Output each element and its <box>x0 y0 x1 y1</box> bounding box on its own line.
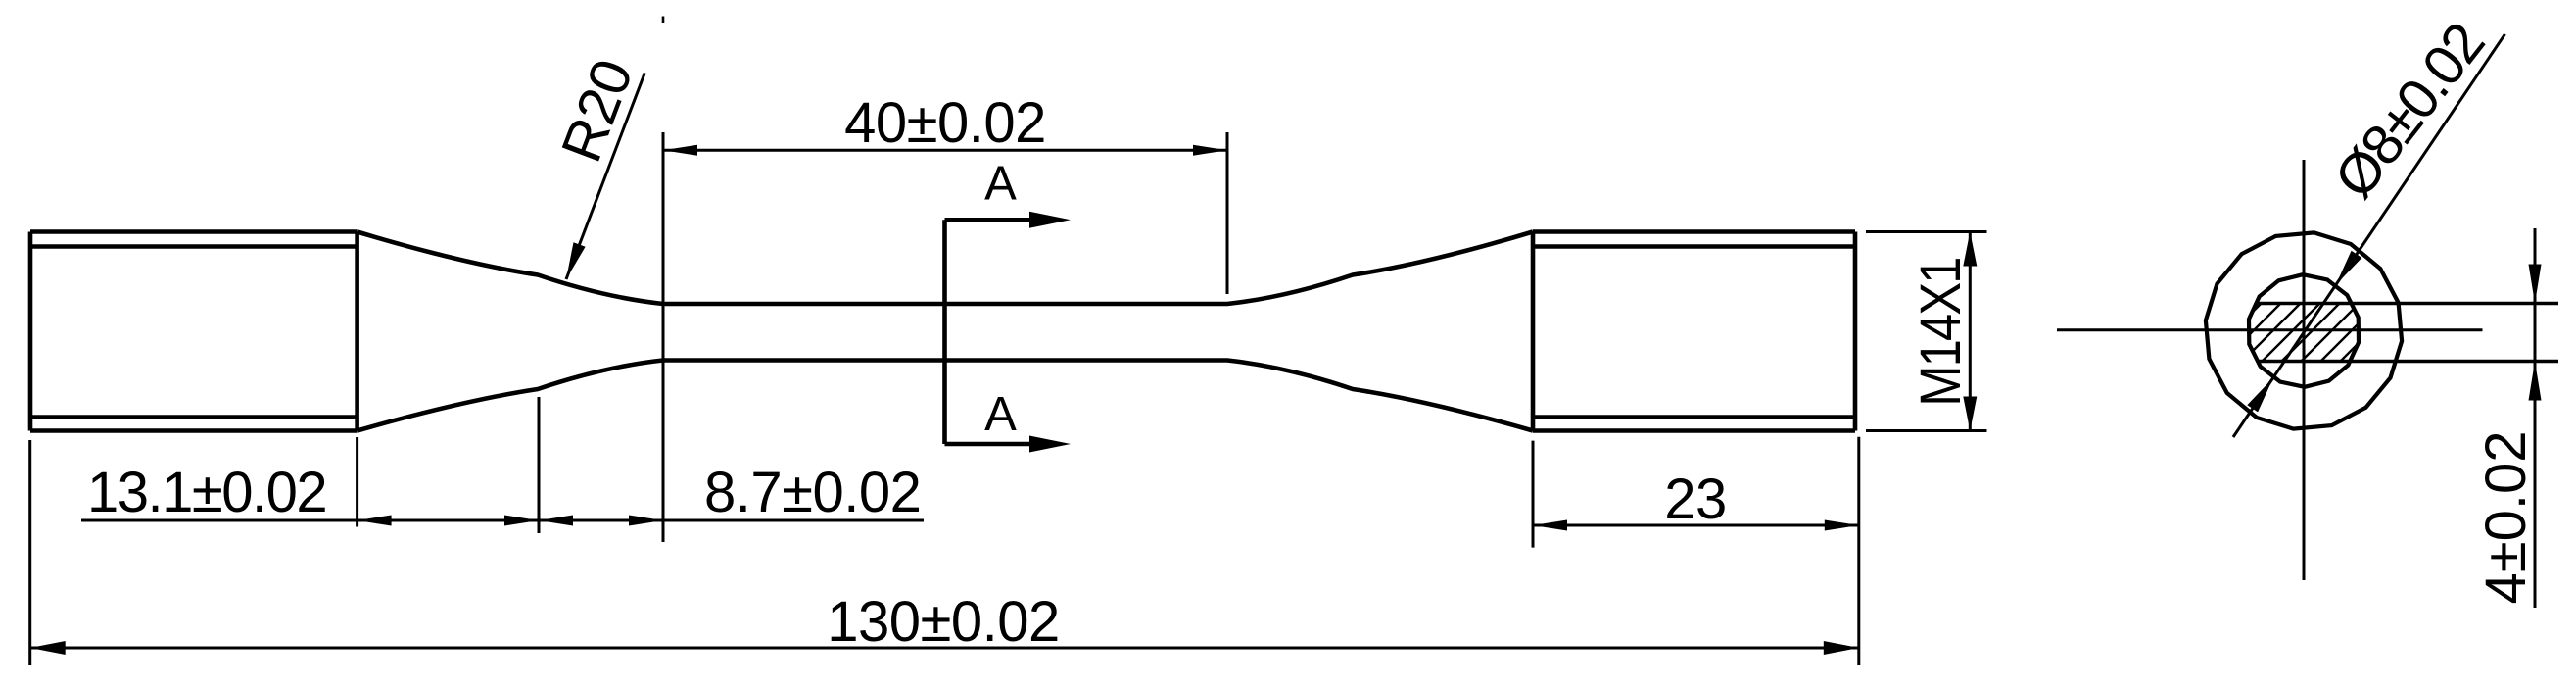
dimension line 40 <box>663 149 1227 152</box>
arrowhead 4 down <box>2529 265 2542 304</box>
section outer circle (polygon) <box>2206 232 2402 428</box>
left grip thread lines <box>30 247 358 418</box>
leader line Ø8 <box>2233 34 2505 437</box>
extension line 130 left <box>28 440 31 665</box>
section flat chord top + extension line <box>2255 302 2558 305</box>
arrowhead 40 left <box>663 145 697 156</box>
svg-text:130±0.02: 130±0.02 <box>827 590 1060 654</box>
arrowhead 40 right <box>1193 145 1227 156</box>
bottom profile curve <box>358 361 1533 431</box>
leader line R20 <box>566 73 644 279</box>
extension line chain 550 <box>538 397 541 533</box>
svg-text:A: A <box>984 158 1017 211</box>
arrowhead Ø8 lower <box>2247 377 2273 412</box>
svg-text:A: A <box>984 388 1017 441</box>
arrowhead 8.7 left <box>539 516 573 526</box>
arrowhead M14X1 down <box>1963 397 1977 431</box>
arrowhead R20 leader <box>566 242 586 279</box>
svg-text:4±0.02: 4±0.02 <box>2474 431 2538 605</box>
arrowhead 130 left <box>30 641 66 655</box>
section cut line A-A <box>945 220 1030 444</box>
extension line 23/130 right <box>1857 437 1860 665</box>
extension line M14X1 bottom <box>1866 429 1987 432</box>
svg-text:40±0.02: 40±0.02 <box>844 91 1046 155</box>
right grip outline <box>1533 232 1855 431</box>
section flat chord bottom + extension line <box>2257 360 2558 363</box>
top profile curve <box>358 232 1533 305</box>
dimension line 23 <box>1533 524 1859 527</box>
svg-text:13.1±0.02: 13.1±0.02 <box>87 461 326 524</box>
svg-text:M14X1: M14X1 <box>1909 258 1973 406</box>
arrowhead 130 right <box>1824 641 1859 655</box>
dimension line 130 <box>30 647 1859 650</box>
dimension line chain 13.1/8.7 <box>81 519 924 522</box>
section inner circle Ø8 (polygon) <box>2249 274 2359 387</box>
tick above extension 40 left <box>662 17 665 24</box>
arrowhead 8.7 right <box>629 516 663 526</box>
arrowhead 13.1 left <box>358 516 392 526</box>
extension line 23 left <box>1532 441 1535 548</box>
left grip outline <box>30 232 358 431</box>
arrowhead M14X1 up <box>1963 232 1977 267</box>
arrowhead 23 right <box>1825 520 1859 531</box>
hatch lines of cut section <box>2248 304 2359 362</box>
arrowhead section top <box>1029 212 1071 228</box>
extension line 40 left <box>662 132 665 542</box>
arrowhead 4 up <box>2529 362 2542 401</box>
svg-text:8.7±0.02: 8.7±0.02 <box>704 461 921 524</box>
extension line 40 right <box>1226 132 1229 294</box>
arrowhead section bottom <box>1029 436 1071 453</box>
dimension line M14X1 <box>1969 232 1972 431</box>
right grip thread lines <box>1533 247 1855 418</box>
arrowhead 13.1 right <box>504 516 539 526</box>
section view centerline vertical <box>2303 160 2306 580</box>
dimension line 4±0.02 <box>2534 228 2537 608</box>
arrowhead 23 left <box>1533 520 1567 531</box>
extension line chain 364 <box>356 437 358 527</box>
svg-text:23: 23 <box>1664 468 1727 531</box>
arrowhead Ø8 upper <box>2336 251 2362 285</box>
extension line M14X1 top <box>1866 230 1987 233</box>
section view centerline horizontal <box>2057 328 2483 331</box>
